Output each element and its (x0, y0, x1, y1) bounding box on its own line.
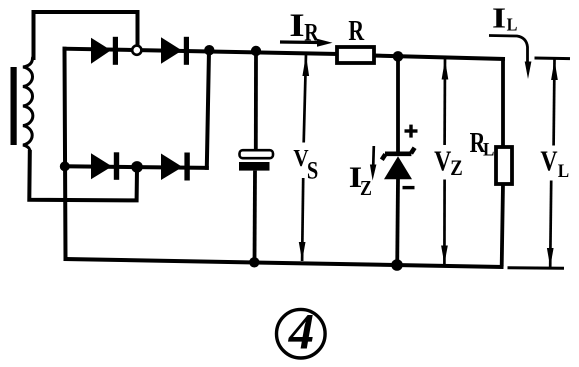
svg-text:V: V (540, 146, 557, 177)
wire: transformer bottom lead down and right to lower AC node (29, 152, 137, 200)
current arrow I_Z (370, 146, 377, 181)
resistor R_L (496, 147, 512, 184)
label V_Z (434, 146, 463, 180)
zener diode DZ body (triangle, anode below) (384, 156, 412, 179)
label I_L (492, 3, 517, 35)
diode D1 (91, 37, 118, 65)
voltage arrow V_Z (443, 59, 446, 265)
junction dot: filter capacitor top (251, 46, 261, 56)
junction dot: zener branch top (393, 51, 404, 62)
wire: left rail joining D1 and D3 anodes down to bottom rail (65, 49, 66, 259)
wire: load branch top (rail corner down to R_L) (501, 59, 505, 147)
wire: bottom rail (66, 259, 502, 267)
svg-text:I: I (289, 7, 304, 43)
capacitor C top plate (240, 150, 274, 158)
svg-text:R: R (348, 17, 365, 47)
label V_L (540, 146, 569, 181)
wire: lower bridge row (65, 166, 207, 168)
current arrow I_L (curved into load branch) (489, 36, 531, 80)
svg-text:Z: Z (360, 178, 372, 201)
svg-text:V: V (434, 146, 451, 177)
label R_L (470, 126, 495, 159)
resistor R (337, 47, 374, 63)
wire: top rail right section (resistor R to load corner) (374, 56, 503, 60)
diode D3 (91, 152, 119, 180)
diode D2 (161, 37, 189, 65)
capacitor C bottom plate (239, 162, 270, 171)
current arrow I_R (280, 39, 333, 47)
wire: zener bottom lead (395, 179, 400, 265)
transformer winding L1 (23, 55, 34, 154)
zener diode DZ cathode bar (382, 148, 415, 160)
node: AC input terminal (open circle) (132, 46, 141, 55)
svg-text:4: 4 (288, 305, 315, 361)
label - (zener anode polarity) (403, 186, 415, 189)
junction dot: lower bridge row / left rail (60, 161, 70, 171)
wire: top loop from transformer top to AC node of bridge (34, 12, 138, 58)
wire: load branch bottom (R_L to bottom rail corner) (502, 184, 503, 267)
svg-text:S: S (307, 157, 318, 184)
svg-text:Z: Z (450, 157, 462, 181)
wire: bridge + output vertical (207, 51, 209, 168)
junction dot: lower AC node of bridge (131, 161, 143, 173)
extension bar: V_L top (535, 57, 571, 61)
voltage arrow V_L (550, 59, 554, 267)
wire: zener top lead (396, 56, 400, 152)
junction dot: capacitor bottom on bottom rail (249, 257, 259, 267)
voltage arrow V_S (302, 54, 306, 261)
svg-text:L: L (507, 15, 518, 35)
wire: capacitor top lead (254, 51, 258, 150)
extension bar: V_L bottom (508, 266, 565, 270)
label V_S (293, 145, 318, 184)
svg-text:L: L (483, 139, 494, 160)
svg-text:L: L (558, 160, 569, 181)
label + (zener cathode polarity) (405, 125, 418, 138)
label I_Z (349, 160, 372, 200)
junction dot: zener bottom on bottom rail (391, 259, 403, 271)
figure number: circled 4 (277, 305, 326, 361)
label I_R (289, 7, 319, 46)
transformer core (11, 67, 17, 145)
junction dot: bridge + output on top rail (204, 45, 214, 55)
diode D4 (161, 153, 190, 181)
svg-text:I: I (492, 3, 506, 35)
wire: top rail left section (bridge row to resistor R) (65, 49, 338, 54)
wire: capacitor bottom lead (253, 171, 257, 263)
